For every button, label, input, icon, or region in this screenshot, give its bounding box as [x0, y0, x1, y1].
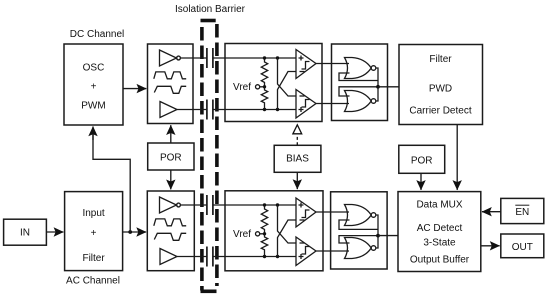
svg-text:OSC: OSC	[83, 63, 105, 74]
svg-text:Input: Input	[82, 208, 104, 219]
NOR gate G3 (AC top)	[345, 205, 376, 226]
svg-text:AC Detect: AC Detect	[417, 223, 463, 234]
comparator U5 (AC bottom)	[296, 237, 316, 266]
svg-text:+: +	[91, 82, 97, 93]
block: IN port	[4, 219, 47, 245]
block: DC driver box	[148, 44, 194, 124]
wire: inverter A3 output to capacitor	[180, 204, 206, 206]
wire: Input Filter to AC driver (arrow)	[123, 231, 147, 233]
wire: DC latch feedback	[339, 68, 378, 101]
svg-text:+: +	[91, 228, 97, 239]
wire: AC latch feedback	[339, 215, 378, 248]
wire: capacitor C2 to comparator (bottom DC)	[213, 109, 296, 111]
wire: buffer A2 output to capacitor	[177, 109, 206, 111]
wire: DC latch to Filter	[378, 86, 399, 88]
svg-text:Filter: Filter	[429, 54, 452, 65]
waveform symbol (AC driver)	[154, 219, 186, 240]
block: EN port	[501, 198, 544, 223]
wire: IN to Input Filter (arrow)	[46, 231, 63, 233]
capacitor C3 (isolation, top AC)	[207, 195, 213, 215]
wire: capacitor C3 to comparator (top AC)	[213, 204, 296, 206]
resistor R2 (DC divider bottom)	[261, 87, 267, 110]
svg-text:POR: POR	[160, 153, 182, 164]
svg-text:Filter: Filter	[82, 253, 105, 264]
capacitor C2 (isolation, bottom DC)	[207, 100, 213, 120]
terminal: Vref node (DC)	[256, 85, 265, 89]
block: AC driver box	[147, 191, 194, 271]
block: POR (right)	[399, 145, 445, 173]
svg-text:Isolation Barrier: Isolation Barrier	[175, 4, 246, 15]
NOR gate G4 (AC bottom)	[345, 238, 376, 259]
wire: POR up arrow to DC driver	[170, 125, 172, 143]
block: Filter / PWD / Carrier Detect	[399, 45, 483, 125]
wire: AC latch to Data MUX	[378, 235, 399, 237]
svg-text:Carrier Detect: Carrier Detect	[409, 106, 471, 117]
comparator U3 (DC bottom)	[296, 90, 316, 119]
block: AC latch box	[331, 192, 388, 269]
wire: cross-couple P to U3- (DC)	[278, 58, 297, 96]
wire: capacitor C1 to comparator (top DC)	[213, 57, 296, 59]
wire: U5 output to latch R input	[316, 250, 349, 252]
block U1: OSC + PWM	[64, 44, 123, 125]
wire: BIAS arrow down to AC receiver	[296, 172, 298, 189]
NOR gate G2 (DC bottom)	[345, 91, 376, 112]
svg-text:POR: POR	[411, 156, 433, 167]
svg-text:BIAS: BIAS	[286, 154, 309, 165]
wire: BIAS dashed arrow up to DC receiver	[293, 125, 302, 146]
wire: U4 output to latch S input	[316, 211, 349, 213]
label: AC Channel	[66, 276, 120, 287]
wire: EN to Data MUX (arrow left)	[482, 211, 501, 213]
wire: Filter down to Data MUX (arrow)	[456, 125, 458, 190]
label: DC Channel	[70, 29, 124, 40]
resistor R1 (DC divider top)	[261, 58, 267, 87]
junction: tap to OSC	[128, 230, 132, 234]
label: Vref (AC)	[233, 229, 251, 240]
isolation barrier (dashed capacitive barrier)	[201, 21, 217, 292]
wire: POR right arrow down to Data MUX	[420, 173, 422, 190]
label: Vref (DC)	[233, 82, 251, 93]
buffer A2 (bottom DC driver)	[160, 102, 177, 118]
svg-text:Vref: Vref	[233, 82, 251, 93]
wire: Data MUX to OUT (arrow right)	[481, 245, 500, 247]
waveform symbol (DC driver)	[154, 72, 186, 93]
block: OUT port	[501, 234, 544, 258]
capacitor C1 (isolation, top DC)	[207, 48, 213, 68]
inverter A3 (top AC driver)	[160, 197, 181, 213]
wire: inverter A1 output to capacitor	[180, 57, 206, 59]
inverter A1 (top DC driver)	[160, 50, 181, 66]
block: DC latch box	[332, 44, 388, 121]
junction dots (DC receiver)	[263, 56, 279, 111]
junction dots (AC receiver)	[263, 203, 279, 258]
resistor R3 (AC divider top)	[261, 205, 267, 234]
junction: DC latch output	[376, 85, 380, 89]
block: POR (left)	[148, 143, 194, 170]
wire: U2 output to latch S input	[316, 63, 349, 65]
svg-text:IN: IN	[20, 228, 30, 239]
block: Input + Filter	[65, 192, 123, 271]
svg-text:OUT: OUT	[512, 242, 533, 253]
svg-text:AC Channel: AC Channel	[66, 276, 120, 287]
wire: capacitor C4 to comparator (bottom AC)	[213, 256, 296, 258]
NOR gate G1 (DC top)	[345, 58, 376, 79]
comparator U2 (DC top)	[296, 50, 316, 79]
svg-text:Data MUX: Data MUX	[416, 200, 462, 211]
comparator U4 (AC top)	[296, 198, 316, 227]
svg-text:Output Buffer: Output Buffer	[410, 255, 470, 266]
wire: cross-couple N to U4- (AC)	[278, 220, 297, 257]
junction: AC latch output	[376, 234, 380, 238]
wire: U3 output to latch R input	[316, 103, 349, 105]
buffer A4 (bottom AC driver)	[160, 249, 177, 265]
label: Isolation Barrier	[175, 4, 246, 15]
wire: cross-couple N to U2- (DC)	[278, 72, 297, 110]
wire: cross-couple P to U5- (AC)	[278, 205, 297, 243]
capacitor C4 (isolation, bottom AC)	[207, 247, 213, 267]
svg-text:DC Channel: DC Channel	[70, 29, 124, 40]
terminal: Vref node (AC)	[256, 232, 265, 236]
resistor R4 (AC divider bottom)	[261, 234, 267, 257]
wire: OSC+PWM output to DC driver (arrow)	[123, 88, 146, 90]
svg-text:PWD: PWD	[429, 84, 452, 95]
wire: tap up to OSC+PWM (arrow)	[93, 129, 130, 233]
block: DC receiver (Vref comparators)	[225, 44, 322, 122]
wire: POR down arrow to AC driver	[170, 170, 172, 189]
svg-text:EN: EN	[515, 207, 529, 218]
svg-text:PWM: PWM	[81, 101, 105, 112]
block: AC receiver (Vref comparators)	[225, 191, 323, 271]
svg-text:3-State: 3-State	[423, 238, 456, 249]
svg-text:Vref: Vref	[233, 229, 251, 240]
wire: buffer A4 output to capacitor	[177, 256, 206, 258]
block: BIAS	[274, 145, 321, 172]
block: Data MUX / AC Detect / 3-State / Output Buffer	[398, 192, 481, 272]
